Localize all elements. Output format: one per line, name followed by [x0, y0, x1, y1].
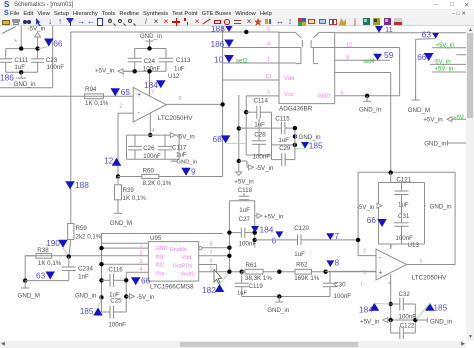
svg-text:GND_in: GND_in — [14, 81, 37, 88]
svg-text:U13: U13 — [408, 242, 420, 249]
svg-text:OutRTN: OutRTN — [173, 263, 193, 269]
svg-text:1uF: 1uF — [254, 122, 265, 129]
svg-text:-5V_in: -5V_in — [357, 205, 374, 211]
svg-text:-: - — [379, 255, 382, 262]
svg-text:169K 1%: 169K 1% — [294, 275, 320, 282]
svg-text:C26: C26 — [143, 145, 155, 152]
svg-text:GND_in: GND_in — [267, 307, 290, 314]
svg-text:set4: set4 — [363, 59, 375, 65]
svg-text:1uF: 1uF — [294, 251, 305, 258]
svg-text:Vss: Vss — [156, 271, 165, 277]
svg-text:R94: R94 — [85, 86, 97, 93]
svg-text:100nF: 100nF — [143, 153, 161, 160]
svg-text:186: 186 — [0, 73, 14, 83]
svg-text:3: 3 — [140, 259, 143, 265]
svg-text:LTC1966CMS8: LTC1966CMS8 — [150, 283, 194, 290]
svg-text:1: 1 — [267, 57, 270, 63]
svg-text:+5V_in: +5V_in — [234, 179, 254, 186]
svg-text:Vout1: Vout1 — [181, 272, 195, 278]
svg-text:ADG436BR: ADG436BR — [279, 106, 313, 113]
svg-text:GND_in: GND_in — [424, 140, 447, 147]
svg-text:GND: GND — [318, 94, 331, 100]
svg-text:1nF: 1nF — [78, 274, 89, 281]
svg-text:C30: C30 — [334, 282, 346, 289]
svg-text:1uF: 1uF — [176, 152, 187, 159]
svg-text:-5V_in: -5V_in — [137, 294, 155, 301]
svg-text:66: 66 — [53, 38, 63, 48]
svg-text:C118: C118 — [238, 187, 253, 194]
svg-text:38,3K 1%: 38,3K 1% — [245, 275, 272, 282]
svg-text:C116: C116 — [108, 267, 123, 274]
svg-text:C121: C121 — [396, 177, 411, 184]
svg-text:4: 4 — [140, 267, 143, 273]
svg-text:+: + — [379, 270, 383, 277]
svg-text:12: 12 — [346, 43, 352, 49]
svg-text:68: 68 — [213, 134, 223, 144]
svg-text:C120: C120 — [294, 225, 309, 232]
svg-text:R60: R60 — [143, 168, 155, 175]
svg-text:8: 8 — [335, 258, 340, 268]
svg-text:63: 63 — [36, 271, 46, 281]
svg-text:100nF: 100nF — [253, 154, 271, 161]
svg-text:100nF: 100nF — [47, 64, 65, 71]
svg-text:*: * — [14, 39, 17, 46]
svg-text:1: 1 — [360, 282, 363, 288]
svg-text:GND_in: GND_in — [430, 204, 453, 211]
svg-text:4: 4 — [152, 128, 155, 134]
svg-text:C119: C119 — [249, 283, 264, 290]
svg-text:C115: C115 — [275, 116, 290, 123]
svg-text:R38: R38 — [37, 247, 49, 254]
svg-text:3: 3 — [267, 27, 270, 33]
svg-text:C122: C122 — [400, 323, 415, 330]
svg-text:7: 7 — [335, 231, 340, 241]
svg-text:63: 63 — [422, 30, 432, 40]
svg-text:1uF: 1uF — [239, 207, 250, 214]
svg-text:184: 184 — [359, 305, 373, 315]
svg-text:1uF: 1uF — [174, 66, 185, 73]
svg-text:Vdd: Vdd — [182, 255, 192, 261]
svg-text:R61: R61 — [246, 262, 258, 269]
svg-text:6: 6 — [420, 259, 423, 265]
svg-text:C32: C32 — [399, 291, 411, 298]
svg-text:6: 6 — [272, 236, 277, 246]
svg-text:1uF: 1uF — [398, 202, 409, 209]
svg-text:Vdd: Vdd — [284, 76, 294, 82]
svg-text:C117: C117 — [172, 145, 187, 152]
svg-text:C24: C24 — [144, 58, 156, 65]
svg-text:set2: set2 — [236, 59, 248, 65]
svg-text:+5V_in: +5V_in — [95, 68, 115, 75]
svg-text:1uF: 1uF — [278, 137, 289, 144]
svg-text:LTC2050HV: LTC2050HV — [158, 115, 193, 122]
svg-text:11: 11 — [385, 26, 393, 34]
svg-text:3: 3 — [127, 90, 130, 96]
svg-text:185: 185 — [433, 303, 447, 313]
svg-text:188: 188 — [211, 26, 225, 34]
svg-text:1uF: 1uF — [14, 64, 25, 71]
svg-text:-5V_in: -5V_in — [256, 165, 274, 172]
svg-text:59: 59 — [384, 50, 394, 60]
svg-text:C25: C25 — [110, 298, 122, 305]
svg-text:100nF: 100nF — [395, 235, 413, 242]
svg-text:+5V: +5V — [453, 116, 464, 122]
svg-text:8: 8 — [210, 242, 213, 248]
svg-text:10: 10 — [214, 55, 224, 65]
svg-text:LTC2050HV: LTC2050HV — [412, 275, 447, 282]
svg-text:1K 0,1%: 1K 0,1% — [38, 260, 62, 267]
svg-text:3: 3 — [363, 270, 366, 276]
svg-text:190: 190 — [46, 238, 60, 248]
svg-text:IN2: IN2 — [156, 263, 164, 269]
svg-text:9: 9 — [191, 167, 196, 177]
svg-text:GND_in: GND_in — [177, 160, 198, 166]
svg-text:+: + — [137, 92, 141, 99]
svg-text:185: 185 — [309, 141, 323, 151]
svg-text:13: 13 — [265, 74, 271, 80]
svg-text:182: 182 — [202, 285, 216, 295]
svg-text:GND_M: GND_M — [18, 293, 40, 300]
svg-text:C111: C111 — [14, 57, 28, 64]
svg-text:C234: C234 — [78, 266, 93, 273]
svg-text:7: 7 — [151, 90, 154, 96]
svg-text:1: 1 — [140, 243, 143, 249]
svg-text:C31: C31 — [398, 213, 410, 220]
svg-text:9: 9 — [346, 55, 349, 61]
svg-text:C114: C114 — [254, 97, 269, 104]
svg-text:186: 186 — [211, 39, 225, 49]
svg-text:R59: R59 — [76, 225, 88, 232]
svg-text:+5V_in: +5V_in — [360, 318, 380, 325]
svg-text:GND_in: GND_in — [140, 33, 163, 40]
svg-text:66: 66 — [367, 215, 377, 225]
svg-text:6: 6 — [179, 96, 182, 102]
svg-text:100nF: 100nF — [334, 293, 352, 300]
svg-text:6: 6 — [341, 91, 344, 97]
svg-text:1uF: 1uF — [237, 291, 247, 297]
svg-text:5: 5 — [267, 90, 270, 96]
svg-text:188: 188 — [75, 180, 89, 190]
svg-text:U95: U95 — [150, 235, 162, 242]
svg-text:-: - — [138, 110, 141, 117]
svg-text:8,2K 0,1%: 8,2K 0,1% — [143, 180, 172, 187]
svg-text:GND_M: GND_M — [110, 220, 132, 227]
svg-text:C27: C27 — [239, 216, 251, 223]
svg-text:2: 2 — [140, 251, 143, 257]
svg-text:R62: R62 — [296, 262, 308, 269]
svg-text:GND_M: GND_M — [408, 107, 430, 114]
svg-text:C29: C29 — [279, 146, 291, 152]
svg-text:R39: R39 — [123, 187, 135, 194]
svg-text:Enable: Enable — [170, 247, 187, 253]
svg-text:+5V_in: +5V_in — [264, 213, 284, 220]
svg-text:100nF: 100nF — [108, 322, 126, 329]
svg-text:7: 7 — [210, 250, 213, 256]
svg-text:6: 6 — [210, 258, 213, 264]
svg-text:IN1: IN1 — [156, 255, 164, 261]
svg-text:GND: GND — [156, 246, 168, 252]
svg-text:Vss: Vss — [284, 92, 294, 98]
svg-text:C23: C23 — [46, 57, 58, 64]
svg-text:66: 66 — [141, 276, 151, 286]
svg-text:2: 2 — [120, 104, 123, 110]
svg-text:1K 0,1%: 1K 0,1% — [123, 195, 147, 202]
svg-text:1K 0,1%: 1K 0,1% — [85, 100, 109, 107]
svg-text:C28: C28 — [254, 132, 266, 139]
svg-text:184: 184 — [260, 225, 274, 235]
svg-text:GND_in: GND_in — [430, 318, 453, 325]
svg-text:+5V_in: +5V_in — [423, 117, 443, 124]
svg-text:2: 2 — [363, 249, 366, 255]
svg-text:GND_in: GND_in — [75, 294, 96, 300]
svg-text:GND_in: GND_in — [359, 107, 382, 114]
svg-text:12: 12 — [104, 156, 114, 166]
svg-text:4: 4 — [267, 42, 270, 48]
svg-text:C113: C113 — [176, 57, 191, 64]
svg-text:-5V_in: -5V_in — [28, 26, 46, 33]
svg-text:185: 185 — [80, 306, 94, 316]
svg-text:2k2 0,1%: 2k2 0,1% — [76, 234, 102, 241]
svg-text:U12: U12 — [168, 73, 180, 80]
svg-text:184: 184 — [144, 80, 158, 90]
